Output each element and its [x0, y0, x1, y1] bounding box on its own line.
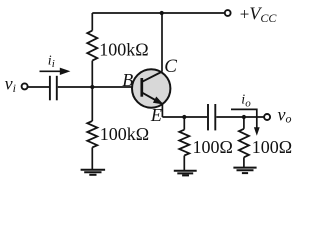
svg-text:100kΩ: 100kΩ: [100, 124, 149, 144]
node R4 junction: [242, 115, 246, 119]
wire C2 to vo: [216, 116, 264, 118]
transistor Q1 body: [132, 69, 170, 107]
wire left divider upper: [91, 13, 93, 31]
wire vi to C1: [28, 86, 49, 88]
wire C1 to base: [58, 86, 142, 88]
svg-text:100Ω: 100Ω: [193, 137, 233, 157]
wire divider lower: [91, 147, 93, 169]
wire top rail: [92, 12, 224, 14]
resistor R4 100 zigzag: [239, 129, 249, 157]
transistor emitter lead: [142, 93, 162, 104]
arrow ii: [40, 70, 62, 72]
transistor collector lead: [142, 72, 162, 82]
wire emitter to C2: [162, 116, 207, 118]
arrow io: [231, 109, 257, 128]
capacitor C2: [208, 104, 215, 130]
ground G1: [81, 170, 106, 175]
svg-text:C: C: [164, 56, 177, 77]
ground G2: [174, 171, 197, 176]
node base junction: [90, 85, 94, 89]
svg-text:100kΩ: 100kΩ: [99, 40, 148, 60]
capacitor C1: [50, 76, 57, 101]
resistor R3 100 zigzag: [179, 130, 189, 156]
resistor R1 100k zigzag: [87, 31, 97, 61]
transistor base bar: [140, 78, 143, 97]
transistor emitter arrowhead: [153, 97, 164, 105]
terminal +VCC: [225, 10, 231, 16]
svg-text:100Ω: 100Ω: [252, 137, 292, 157]
ground G3: [233, 168, 256, 174]
wire R4 to ground: [243, 157, 245, 167]
wire emitter down: [161, 104, 163, 118]
node R3 junction: [182, 115, 186, 119]
node rail-collector junction: [160, 11, 164, 15]
terminal vi: [22, 83, 28, 89]
wire divider middle: [91, 61, 93, 121]
svg-text:E: E: [150, 105, 162, 125]
wire R3 to ground: [183, 156, 185, 171]
wire collector to rail: [161, 13, 163, 72]
wire R4 down: [243, 117, 245, 129]
wire R3 down: [183, 117, 185, 130]
terminal vo: [264, 114, 270, 120]
resistor R2 100k zigzag: [87, 121, 97, 147]
svg-text:B: B: [122, 70, 133, 90]
